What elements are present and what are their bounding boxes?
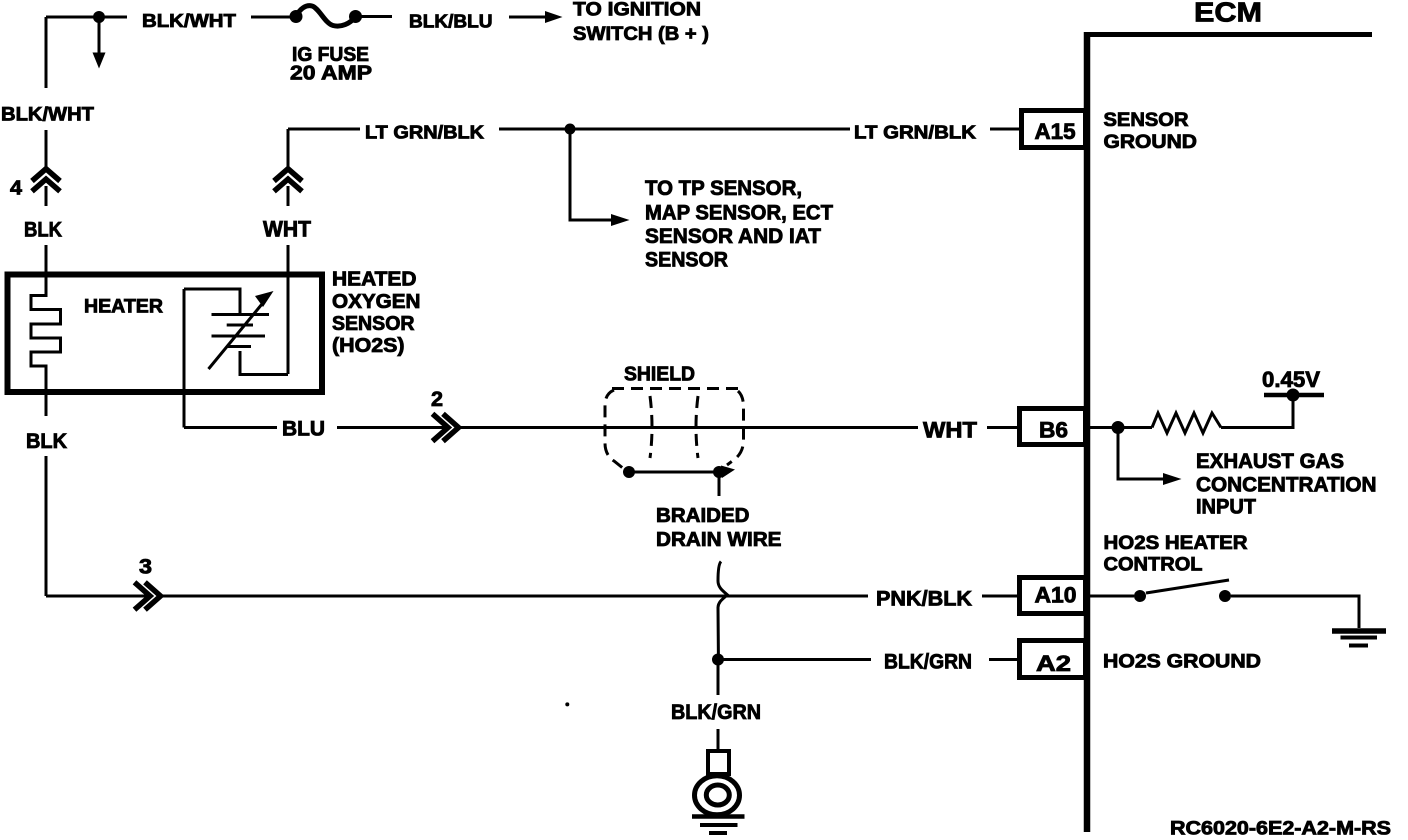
wire: PNK/BLK row (3): [46, 595, 1021, 598]
svg-text:WHT: WHT: [263, 217, 312, 242]
svg-text:BLK: BLK: [24, 219, 62, 242]
label: TO TP SENSOR, MAP SENSOR, ECT SENSOR AND IAT SENSOR: [645, 177, 833, 271]
svg-text:INPUT: INPUT: [1196, 495, 1256, 518]
svg-text:4: 4: [10, 177, 23, 199]
wire: BLK below heater: [45, 396, 48, 596]
drain wire pigtail wedge: [721, 466, 735, 479]
svg-text:DRAIN WIRE: DRAIN WIRE: [656, 529, 782, 551]
wire: B6 to resistor: [1090, 426, 1152, 429]
svg-text:LT GRN/BLK: LT GRN/BLK: [854, 122, 977, 143]
svg-text:TO IGNITION: TO IGNITION: [573, 0, 701, 21]
junction: B6 node: [1112, 421, 1125, 434]
svg-text:GROUND: GROUND: [1104, 132, 1198, 153]
wire: top BLK/WHT feed horizontal: [46, 15, 392, 19]
HO2S sensor box outline: [8, 275, 323, 393]
svg-text:BLK/GRN: BLK/GRN: [884, 651, 972, 674]
wire: LT GRN/BLK horizontal: [288, 128, 1021, 131]
junction: BLK/GRN splice: [712, 654, 724, 666]
svg-text:B6: B6: [1039, 418, 1068, 443]
svg-text:SENSOR: SENSOR: [1104, 110, 1189, 131]
svg-text:BLK/BLU: BLK/BLU: [409, 11, 493, 31]
svg-text:TO TP SENSOR,: TO TP SENSOR,: [645, 177, 802, 200]
wire: WHT vertical from LT GRN corner: [287, 129, 290, 374]
wire: sensor output down to BLU: [183, 289, 186, 428]
fuse IG FUSE 20 AMP: [290, 6, 363, 26]
wire: BLK/GRN to A2: [718, 658, 1021, 661]
junction: 0.45V node: [1287, 389, 1300, 402]
pin box A15: [1022, 111, 1086, 148]
svg-text:BLK/WHT: BLK/WHT: [1, 104, 94, 126]
svg-text:BLK/GRN: BLK/GRN: [671, 700, 761, 724]
svg-text:CONCENTRATION: CONCENTRATION: [1196, 474, 1377, 497]
svg-text:BLU: BLU: [282, 418, 325, 441]
svg-text:SENSOR: SENSOR: [332, 313, 415, 335]
ECM top horizontal line: [1084, 32, 1372, 37]
svg-text:(HO2S): (HO2S): [332, 335, 405, 357]
svg-text:CONTROL: CONTROL: [1104, 555, 1203, 576]
ring terminal ground G101: [692, 751, 745, 833]
junction: LT GRN/BLK splice: [565, 124, 576, 135]
connector 4: double chevron up: [32, 169, 60, 192]
ECM boundary vertical line: [1084, 32, 1091, 832]
pin box A2: [1020, 641, 1086, 678]
wire: top-left vertical BLK/WHT: [45, 17, 48, 272]
label: BRAIDED DRAIN WIRE: [656, 505, 782, 551]
arrow: to TP/MAP/ECT/IAT sensors: [570, 129, 630, 226]
svg-text:HO2S GROUND: HO2S GROUND: [1103, 652, 1261, 673]
arrow: splice down to other circuits: [93, 17, 106, 69]
svg-text:0.45V: 0.45V: [1262, 367, 1320, 392]
svg-text:LT GRN/BLK: LT GRN/BLK: [365, 122, 485, 143]
svg-text:ECM: ECM: [1194, 0, 1262, 28]
svg-text:SHIELD: SHIELD: [624, 364, 695, 386]
svg-text:OXYGEN: OXYGEN: [332, 291, 421, 313]
braided drain wire: [629, 472, 719, 496]
svg-text:HO2S HEATER: HO2S HEATER: [1104, 533, 1248, 554]
shield (dashed): [605, 389, 744, 470]
connector 2: double chevron right: [433, 414, 459, 441]
pin box B6: [1020, 409, 1086, 445]
pin box A10: [1020, 578, 1086, 614]
arrow: to ignition switch: [509, 11, 563, 23]
svg-text:RC6020-6E2-A2-M-RS: RC6020-6E2-A2-M-RS: [1170, 818, 1391, 840]
drain wire hop over PNK/BLK wire: [718, 562, 727, 656]
svg-text:MAP SENSOR, ECT: MAP SENSOR, ECT: [645, 202, 833, 225]
label: EXHAUST GAS CONCENTRATION INPUT: [1196, 450, 1377, 518]
arrow: exhaust gas concentration input: [1118, 428, 1182, 486]
svg-text:A15: A15: [1035, 119, 1076, 144]
label: HEATED OXYGEN SENSOR (HO2S): [332, 269, 421, 357]
wire: BLK/GRN down to ground: [717, 660, 720, 753]
switch: HO2S heater control driver: [1090, 580, 1359, 628]
svg-text:3: 3: [139, 555, 152, 578]
svg-text:2: 2: [431, 388, 443, 411]
svg-text:EXHAUST GAS: EXHAUST GAS: [1196, 450, 1344, 473]
label: IG FUSE / 20 AMP: [290, 44, 372, 85]
zirconia cell symbol (variable source): [184, 289, 288, 375]
svg-text:BLK: BLK: [26, 430, 67, 453]
label: HO2S HEATER CONTROL: [1104, 533, 1248, 576]
svg-text:BLK/WHT: BLK/WHT: [142, 10, 237, 31]
svg-text:HEATED: HEATED: [332, 269, 417, 291]
svg-text:BRAIDED: BRAIDED: [656, 505, 750, 527]
connector: WHT double chevron up: [274, 169, 302, 192]
wire: resistor to 0.45V rail: [1221, 395, 1324, 428]
svg-text:A2: A2: [1036, 651, 1071, 676]
svg-text:WHT: WHT: [923, 418, 978, 443]
stray speck: [565, 702, 569, 706]
resistor (pull-up to 0.45V): [1152, 413, 1221, 433]
svg-text:SENSOR AND IAT: SENSOR AND IAT: [645, 225, 821, 248]
svg-text:PNK/BLK: PNK/BLK: [876, 588, 972, 611]
wire: BLU / WHT row: [184, 426, 1021, 429]
label: SENSOR GROUND: [1104, 110, 1198, 153]
connector 3: double chevron right: [135, 582, 161, 609]
svg-text:A10: A10: [1035, 582, 1077, 607]
svg-text:20 AMP: 20 AMP: [290, 63, 372, 85]
heater element (meander): [31, 272, 61, 396]
svg-text:HEATER: HEATER: [84, 297, 163, 318]
chassis ground (right): [1332, 631, 1386, 646]
label: TO IGNITION SWITCH (B +): [573, 0, 709, 45]
svg-text:SENSOR: SENSOR: [645, 249, 728, 272]
junction: top splice: [93, 11, 105, 23]
svg-text:SWITCH (B + ): SWITCH (B + ): [573, 23, 709, 45]
